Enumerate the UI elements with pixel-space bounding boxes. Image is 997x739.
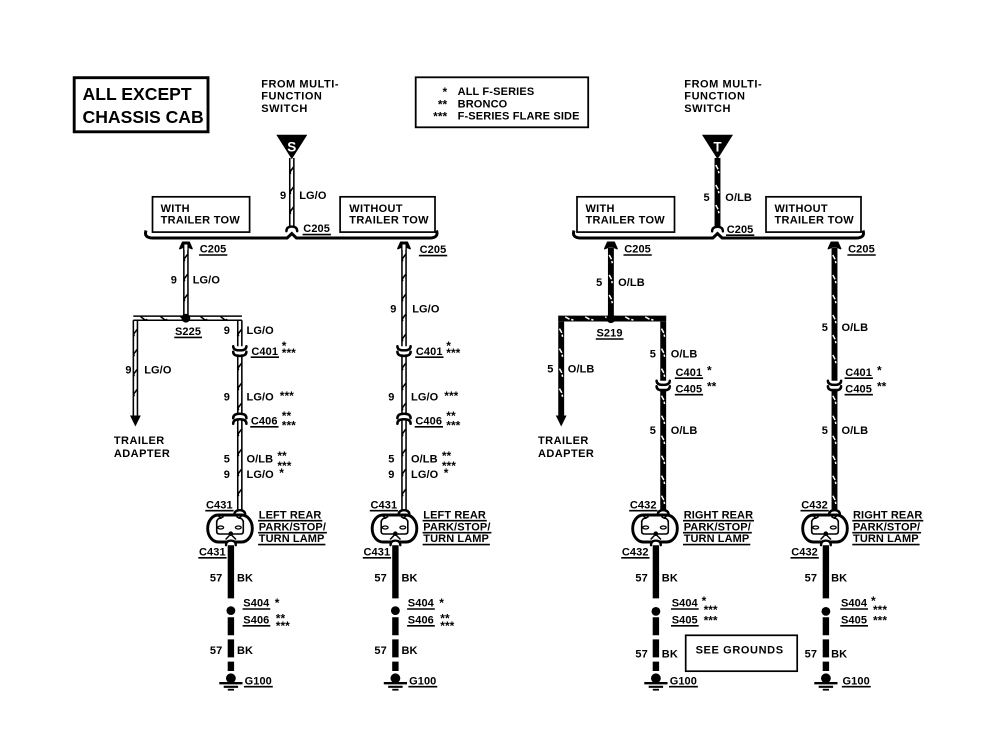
bus bar right (C205) [573, 231, 863, 239]
svg-text:BK: BK [237, 573, 253, 585]
lamp left rear park/stop/turn (col2) [372, 515, 417, 542]
title box ALL EXCEPT CHASSIS CAB [74, 78, 208, 132]
svg-text:C205: C205 [200, 244, 227, 256]
svg-text:SEE GROUNDS: SEE GROUNDS [696, 645, 784, 657]
label 9 LG/O * col1 [224, 466, 285, 481]
svg-text:57: 57 [635, 573, 647, 585]
svg-text:C406: C406 [415, 415, 442, 427]
wire splice bar S219 horizontal [558, 316, 666, 322]
svg-text:RIGHT REAR: RIGHT REAR [684, 509, 753, 521]
label 5 O/LB ** *** col1 [224, 449, 292, 473]
svg-text:57: 57 [374, 645, 386, 657]
box WITHOUT TRAILER TOW (left) [340, 197, 435, 232]
bus bar left (C205) [145, 231, 437, 239]
svg-text:BK: BK [237, 645, 253, 657]
svg-text:G100: G100 [670, 675, 697, 687]
svg-text:WITH: WITH [586, 203, 615, 215]
svg-text:C205: C205 [848, 244, 875, 256]
svg-text:9: 9 [224, 391, 230, 403]
label RIGHT REAR PARK/STOP/TURN LAMP (col4) [852, 509, 923, 545]
legend box [416, 77, 589, 127]
wire LG/O col1 below C401 [238, 354, 242, 415]
svg-text:S406: S406 [243, 614, 269, 626]
svg-text:FUNCTION: FUNCTION [684, 91, 745, 103]
label 5 O/LB (T feed) [703, 192, 752, 204]
wire O/LB trailer-adapter drop col3 [558, 322, 564, 416]
svg-text:LEFT REAR: LEFT REAR [423, 509, 486, 521]
svg-text:O/LB: O/LB [842, 322, 869, 334]
wire BK col1 lower (dashed) [228, 617, 234, 671]
svg-text:C401: C401 [251, 346, 278, 358]
svg-text:CHASSIS CAB: CHASSIS CAB [83, 107, 204, 127]
svg-text:LG/O: LG/O [299, 190, 327, 202]
label RIGHT REAR PARK/STOP/TURN LAMP (col3) [683, 509, 754, 545]
connector C205 arrow col4 [828, 242, 840, 249]
label 9 LG/O col1 mid [224, 325, 274, 337]
svg-text:C431: C431 [206, 499, 233, 511]
svg-text:C401: C401 [676, 367, 703, 379]
svg-text:C205: C205 [727, 224, 754, 236]
wire LG/O col1 upper [184, 245, 188, 316]
svg-text:C432: C432 [622, 546, 649, 558]
svg-text:LEFT REAR: LEFT REAR [259, 509, 322, 521]
svg-text:O/LB: O/LB [618, 277, 645, 289]
svg-text:57: 57 [805, 573, 817, 585]
svg-text:BRONCO: BRONCO [458, 98, 508, 110]
svg-text:S404: S404 [841, 598, 868, 610]
svg-text:C406: C406 [251, 415, 278, 427]
label 9 LG/O (trailer adapter left) [125, 365, 171, 377]
svg-text:TURN LAMP: TURN LAMP [259, 533, 325, 545]
svg-text:9: 9 [171, 274, 177, 286]
label 5 O/LB col4 upper [822, 322, 868, 334]
trailer adapter arrow (right) [556, 416, 567, 427]
svg-text:S405: S405 [841, 614, 867, 626]
svg-text:***: *** [280, 389, 294, 403]
svg-text:LG/O: LG/O [247, 391, 275, 403]
connector C205 arrow col2 [398, 242, 410, 249]
svg-text:C401: C401 [416, 346, 443, 358]
wire O/LB col4 below C401/C405 [832, 389, 838, 511]
svg-text:***: *** [282, 419, 296, 433]
svg-text:BK: BK [402, 573, 418, 585]
ground G100 col2 [384, 673, 407, 689]
svg-text:G100: G100 [245, 675, 272, 687]
svg-text:5: 5 [822, 425, 828, 437]
label FROM MULTI-FUNCTION SWITCH (right) [684, 78, 762, 115]
wire O/LB col4 upper [832, 248, 838, 382]
label LEFT REAR PARK/STOP/TURN LAMP (col1) [258, 509, 327, 545]
label 57 BK col3 lower [635, 648, 678, 660]
svg-text:TRAILER TOW: TRAILER TOW [586, 215, 666, 227]
label 5 O/LB col3 lower [650, 425, 698, 437]
svg-text:TRAILER: TRAILER [114, 435, 165, 447]
svg-text:LG/O: LG/O [193, 274, 221, 286]
connector C401 col1 [233, 346, 246, 350]
svg-text:TURN LAMP: TURN LAMP [423, 533, 489, 545]
svg-text:**: ** [707, 380, 717, 394]
label 57 BK col4 lower [805, 648, 848, 660]
svg-text:S406: S406 [408, 614, 434, 626]
svg-text:O/LB: O/LB [247, 453, 274, 465]
svg-text:*: * [275, 596, 280, 610]
svg-text:BK: BK [662, 573, 678, 585]
svg-text:9: 9 [280, 190, 286, 202]
svg-text:5: 5 [650, 349, 656, 361]
svg-text:***: *** [446, 419, 460, 433]
svg-text:C405: C405 [845, 383, 872, 395]
svg-text:***: *** [440, 619, 454, 633]
connector C205 arrow col1 [180, 242, 192, 249]
svg-text:LG/O: LG/O [411, 391, 439, 403]
connector C401 col2 [397, 346, 410, 350]
svg-text:BK: BK [831, 573, 847, 585]
svg-text:PARK/STOP/: PARK/STOP/ [853, 521, 920, 533]
svg-text:O/LB: O/LB [725, 192, 752, 204]
svg-text:***: *** [873, 613, 887, 627]
svg-text:BK: BK [831, 648, 847, 660]
svg-text:9: 9 [390, 304, 396, 316]
splice S404/S406 col1 [227, 606, 236, 615]
box SEE GROUNDS [686, 635, 798, 671]
svg-text:9: 9 [125, 365, 131, 377]
svg-text:ALL F-SERIES: ALL F-SERIES [458, 86, 535, 98]
feed connector triangle T [702, 135, 733, 159]
svg-text:T: T [713, 139, 722, 154]
svg-text:C432: C432 [630, 499, 657, 511]
svg-text:C432: C432 [801, 499, 828, 511]
wire O/LB from switch T [715, 158, 721, 227]
svg-text:S404: S404 [408, 598, 435, 610]
svg-text:*: * [444, 466, 449, 480]
svg-text:BK: BK [402, 645, 418, 657]
wire LG/O trailer-adapter drop col1 [133, 320, 137, 415]
label TRAILER ADAPTER (left) [114, 435, 170, 460]
label LEFT REAR PARK/STOP/TURN LAMP (col2) [423, 509, 492, 545]
wire LG/O col1 mid [238, 320, 242, 348]
ground G100 col4 [814, 673, 837, 689]
label 9 LG/O (S feed) [280, 190, 327, 202]
wire O/LB col3 upper [608, 248, 614, 316]
svg-text:FROM MULTI-: FROM MULTI- [684, 78, 762, 90]
svg-text:9: 9 [388, 391, 394, 403]
wire BK col2 upper [392, 544, 398, 598]
svg-text:TRAILER TOW: TRAILER TOW [349, 215, 429, 227]
svg-text:***: *** [276, 619, 290, 633]
svg-text:*: * [707, 364, 712, 378]
svg-text:ALL EXCEPT: ALL EXCEPT [83, 84, 192, 104]
svg-text:O/LB: O/LB [671, 425, 698, 437]
label FROM MULTI-FUNCTION SWITCH (left) [261, 78, 339, 115]
svg-text:S404: S404 [672, 598, 699, 610]
svg-text:PARK/STOP/: PARK/STOP/ [684, 521, 751, 533]
svg-text:LG/O: LG/O [247, 469, 275, 481]
connector C205 (S feed) [286, 227, 297, 232]
ground G100 col3 [644, 673, 667, 689]
connector C401/C405 col3 [657, 381, 670, 385]
svg-text:*: * [439, 596, 444, 610]
svg-text:C205: C205 [303, 223, 330, 235]
lamp left rear park/stop/turn (col1) [208, 515, 253, 542]
svg-text:SWITCH: SWITCH [684, 103, 731, 115]
svg-text:LG/O: LG/O [412, 304, 440, 316]
svg-text:C431: C431 [364, 546, 391, 558]
label 5 O/LB ** *** col2 [388, 449, 456, 473]
label 5 O/LB col3 mid [650, 349, 698, 361]
svg-text:9: 9 [224, 469, 230, 481]
svg-text:9: 9 [224, 325, 230, 337]
box WITH TRAILER TOW (left) [153, 197, 250, 232]
splice S404/S405 col4 [822, 607, 831, 616]
svg-text:**: ** [877, 380, 887, 394]
svg-text:57: 57 [374, 573, 386, 585]
svg-text:TRAILER TOW: TRAILER TOW [161, 215, 241, 227]
svg-text:TURN LAMP: TURN LAMP [684, 533, 750, 545]
svg-text:ADAPTER: ADAPTER [114, 448, 170, 460]
svg-text:***: *** [704, 613, 718, 627]
svg-text:BK: BK [662, 648, 678, 660]
wire BK col3 lower (dashed) [653, 617, 659, 671]
svg-text:9: 9 [388, 469, 394, 481]
svg-text:5: 5 [388, 453, 394, 465]
svg-text:***: *** [444, 389, 458, 403]
svg-text:5: 5 [596, 277, 602, 289]
label 9 LG/O col1 upper [171, 274, 221, 286]
svg-text:C431: C431 [371, 499, 398, 511]
svg-text:TRAILER: TRAILER [538, 435, 589, 447]
svg-text:5: 5 [224, 453, 230, 465]
wire BK col2 lower (dashed) [392, 617, 398, 671]
svg-text:5: 5 [547, 364, 553, 376]
svg-text:WITHOUT: WITHOUT [349, 203, 402, 215]
svg-text:***: *** [446, 346, 460, 360]
svg-text:TURN LAMP: TURN LAMP [853, 533, 919, 545]
wire BK col4 lower (dashed) [823, 617, 829, 671]
svg-text:G100: G100 [843, 675, 870, 687]
svg-text:O/LB: O/LB [411, 453, 438, 465]
svg-text:O/LB: O/LB [842, 425, 869, 437]
svg-text:57: 57 [210, 573, 222, 585]
connector C401/C405 col4 [828, 381, 841, 385]
svg-text:F-SERIES FLARE SIDE: F-SERIES FLARE SIDE [458, 111, 580, 123]
wire col2 below C406 [402, 420, 406, 510]
svg-text:O/LB: O/LB [568, 364, 595, 376]
svg-text:S405: S405 [672, 614, 698, 626]
label 9 LG/O *** col2 [388, 389, 458, 403]
wire BK col4 upper [823, 544, 829, 598]
svg-text:WITHOUT: WITHOUT [775, 203, 828, 215]
wire LG/O col2 below C401 [402, 354, 406, 415]
svg-text:5: 5 [650, 425, 656, 437]
splice S219 [606, 314, 615, 323]
feed connector triangle S [276, 135, 307, 159]
label 57 BK col4 upper [805, 573, 848, 585]
lamp right rear park/stop/turn (col3) [633, 515, 678, 542]
label 5 O/LB col3 upper [596, 277, 645, 289]
svg-text:TRAILER TOW: TRAILER TOW [775, 215, 855, 227]
svg-text:S225: S225 [175, 326, 201, 338]
wire O/LB col3 mid [660, 322, 666, 382]
wire LG/O col2 upper [402, 245, 406, 348]
svg-text:C205: C205 [420, 244, 447, 256]
wire splice bar S225 horizontal [133, 316, 242, 320]
svg-text:RIGHT REAR: RIGHT REAR [853, 509, 922, 521]
svg-text:C205: C205 [624, 244, 651, 256]
label 57 BK col3 upper [635, 573, 678, 585]
svg-text:FROM MULTI-: FROM MULTI- [261, 78, 339, 90]
label TRAILER ADAPTER (right) [538, 435, 594, 460]
svg-text:PARK/STOP/: PARK/STOP/ [423, 521, 490, 533]
splice S225 [182, 314, 191, 323]
svg-text:SWITCH: SWITCH [261, 103, 308, 115]
label 9 LG/O *** col1 [224, 389, 294, 403]
label 5 O/LB col4 lower [822, 425, 868, 437]
svg-text:5: 5 [703, 192, 709, 204]
connector C205 arrow col3 [605, 242, 617, 249]
wire col1 below C406 [238, 420, 242, 510]
label 57 BK col2 upper [374, 573, 417, 585]
svg-text:*: * [279, 466, 284, 480]
svg-text:*: * [877, 364, 882, 378]
svg-text:***: *** [282, 346, 296, 360]
svg-text:C401: C401 [845, 367, 872, 379]
box WITHOUT TRAILER TOW (right) [766, 197, 861, 232]
wire BK col1 upper [228, 544, 234, 598]
label 5 O/LB (trailer adapter right) [547, 364, 594, 376]
svg-text:57: 57 [635, 648, 647, 660]
svg-text:57: 57 [210, 645, 222, 657]
svg-text:57: 57 [805, 648, 817, 660]
svg-text:C432: C432 [791, 546, 818, 558]
label 9 LG/O col2 upper [390, 304, 440, 316]
splice S404/S406 col2 [391, 606, 400, 615]
label 57 BK col2 lower [374, 645, 417, 657]
splice S404/S405 col3 [652, 607, 661, 616]
svg-text:LG/O: LG/O [144, 365, 172, 377]
label 57 BK col1 lower [210, 645, 253, 657]
svg-text:***: *** [433, 110, 447, 124]
svg-text:O/LB: O/LB [671, 349, 698, 361]
label 9 LG/O * col2 [388, 466, 449, 481]
svg-text:LG/O: LG/O [247, 325, 275, 337]
ground G100 col1 [219, 673, 242, 689]
label 57 BK col1 upper [210, 573, 253, 585]
svg-text:WITH: WITH [161, 203, 190, 215]
svg-text:5: 5 [822, 322, 828, 334]
trailer adapter arrow (left) [130, 416, 141, 427]
connector C406 col2 [397, 414, 410, 418]
svg-text:G100: G100 [409, 675, 436, 687]
svg-text:PARK/STOP/: PARK/STOP/ [259, 521, 326, 533]
svg-text:LG/O: LG/O [411, 469, 439, 481]
wire O/LB col3 below C401/C405 [660, 389, 666, 511]
svg-text:FUNCTION: FUNCTION [261, 91, 322, 103]
wire BK col3 upper [653, 544, 659, 598]
svg-text:ADAPTER: ADAPTER [538, 448, 594, 460]
svg-text:C431: C431 [199, 546, 226, 558]
svg-text:S: S [287, 139, 296, 154]
connector C205 (T feed) [712, 227, 723, 232]
svg-text:S219: S219 [597, 328, 623, 340]
svg-text:C405: C405 [676, 383, 703, 395]
box WITH TRAILER TOW (right) [577, 197, 675, 232]
wire LG/O from switch S [290, 158, 294, 227]
connector C406 col1 [233, 414, 246, 418]
svg-text:S404: S404 [243, 598, 270, 610]
lamp right rear park/stop/turn (col4) [803, 515, 848, 542]
